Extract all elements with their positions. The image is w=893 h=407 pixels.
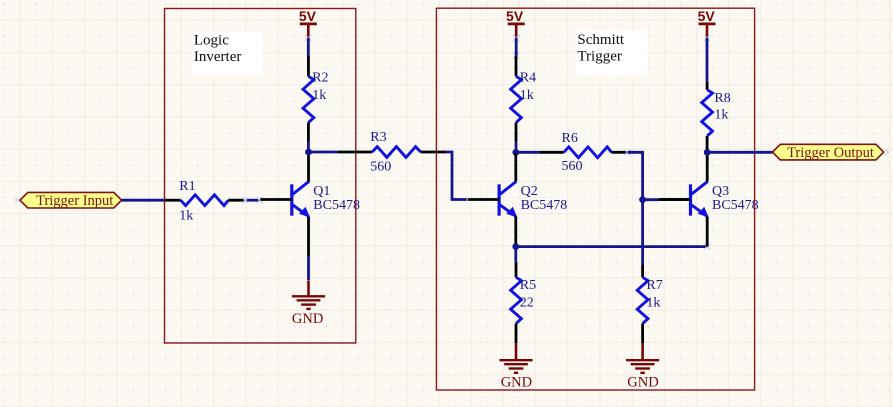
ground	[499, 343, 532, 390]
text block Schmitt Trigger	[576, 31, 648, 76]
text block Logic Inverter	[192, 32, 263, 76]
junction	[512, 149, 519, 156]
svg-text:Trigger Input: Trigger Input	[36, 193, 113, 209]
port Trigger Output	[15, 144, 888, 202]
svg-text:560: 560	[562, 159, 583, 174]
resistor R8	[702, 82, 731, 151]
svg-text:BC5478: BC5478	[712, 198, 759, 213]
svg-text:5V: 5V	[506, 8, 524, 24]
pin	[659, 198, 691, 201]
wire	[707, 151, 772, 154]
svg-text:R2: R2	[312, 71, 328, 86]
ground	[626, 343, 659, 390]
svg-text:Trigger: Trigger	[577, 48, 621, 64]
svg-text:Q1: Q1	[313, 184, 330, 199]
svg-text:1k: 1k	[714, 107, 728, 122]
junction	[704, 149, 711, 156]
wire	[307, 38, 310, 56]
wire	[706, 38, 709, 82]
svg-text:BC5478: BC5478	[521, 198, 568, 213]
resistor R1	[165, 179, 245, 224]
pin	[514, 152, 517, 181]
svg-text:Q3: Q3	[712, 184, 729, 199]
port Trigger Input	[20, 192, 122, 209]
svg-text:1k: 1k	[312, 88, 326, 103]
pin	[706, 217, 709, 247]
svg-text:560: 560	[370, 159, 391, 174]
wire	[307, 141, 310, 152]
svg-text:R3: R3	[370, 130, 386, 145]
resistor R7	[637, 265, 663, 343]
resistor R4	[511, 56, 537, 141]
svg-text:Trigger Output: Trigger Output	[787, 145, 874, 161]
region box Logic Inverter	[165, 9, 356, 344]
wire	[242, 197, 263, 203]
power 5V	[506, 8, 525, 59]
svg-text:1k: 1k	[179, 209, 193, 224]
svg-text:R1: R1	[179, 179, 195, 194]
svg-text:Logic: Logic	[194, 33, 229, 49]
region box Schmitt Trigger	[436, 8, 754, 390]
svg-text:GND: GND	[292, 311, 323, 327]
wire	[307, 256, 310, 280]
resistor R5	[511, 262, 537, 344]
wire	[628, 152, 643, 265]
wire	[515, 38, 518, 56]
ground	[292, 280, 325, 327]
wire	[309, 151, 339, 154]
wire	[446, 152, 467, 200]
svg-text:R4: R4	[520, 71, 536, 86]
pin	[706, 152, 709, 181]
wire	[514, 247, 517, 262]
transistor Q2	[468, 181, 568, 217]
junction	[305, 149, 312, 156]
svg-text:Schmitt: Schmitt	[577, 32, 625, 48]
resistor R3	[338, 130, 446, 174]
svg-text:Inverter: Inverter	[194, 49, 241, 65]
svg-text:R7: R7	[646, 278, 662, 293]
pin	[514, 217, 517, 245]
svg-text:BC5478: BC5478	[313, 198, 360, 213]
transistor Q3	[659, 181, 759, 217]
wire	[643, 198, 659, 201]
junction	[639, 196, 646, 203]
svg-text:GND: GND	[627, 375, 658, 391]
svg-text:R6: R6	[562, 131, 578, 146]
transistor Q1	[260, 181, 360, 217]
svg-text:5V: 5V	[299, 8, 317, 24]
wire	[515, 141, 518, 152]
junction	[512, 243, 519, 250]
power 5V	[299, 8, 317, 42]
svg-text:22: 22	[520, 295, 534, 310]
pin	[307, 156, 310, 182]
power 5V	[698, 8, 716, 42]
svg-text:1k: 1k	[520, 88, 534, 103]
wire	[122, 199, 165, 202]
svg-text:1k: 1k	[646, 295, 660, 310]
svg-text:5V: 5V	[698, 8, 716, 24]
svg-text:Q2: Q2	[521, 184, 538, 199]
svg-text:R8: R8	[714, 91, 730, 106]
wire	[516, 151, 540, 154]
svg-text:GND: GND	[501, 375, 532, 391]
wire	[516, 243, 711, 249]
svg-text:R5: R5	[520, 278, 536, 293]
resistor R2	[303, 56, 329, 141]
wire	[307, 152, 310, 156]
pin	[307, 217, 310, 256]
resistor R6	[540, 131, 631, 174]
